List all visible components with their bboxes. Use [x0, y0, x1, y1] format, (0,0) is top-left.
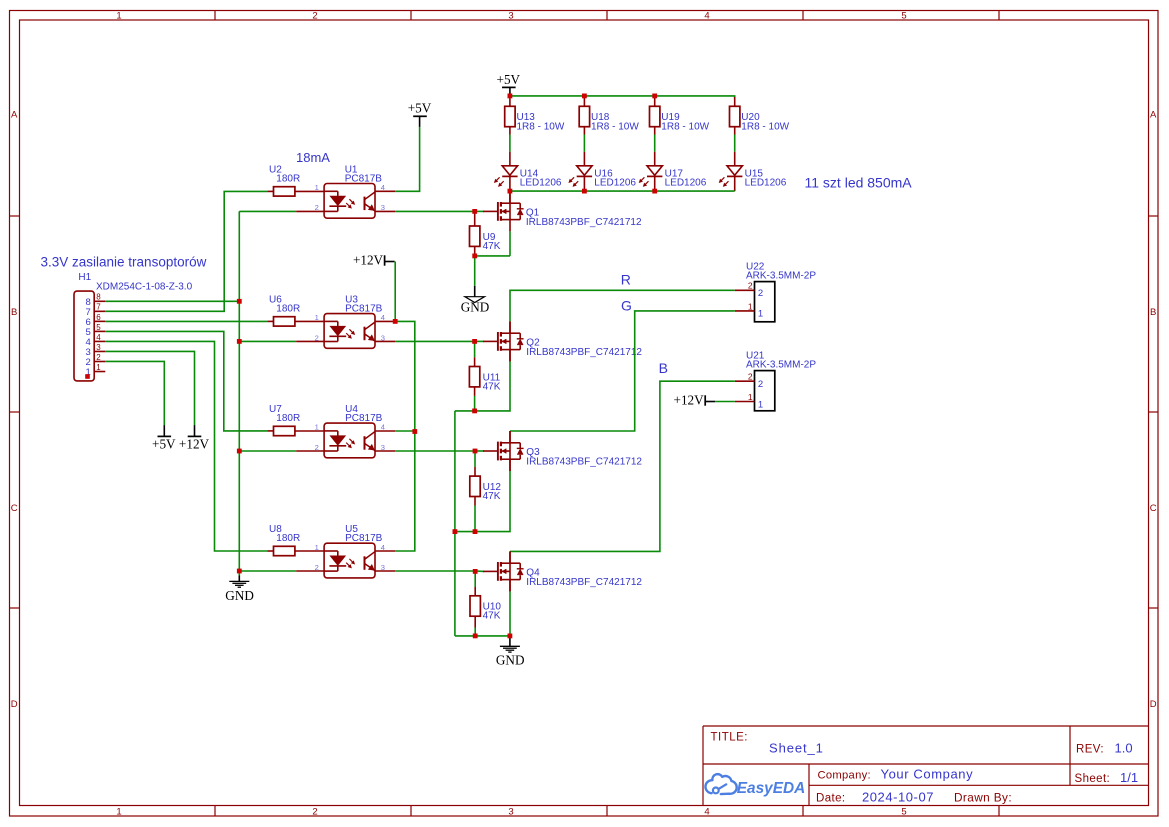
svg-text:2: 2 — [315, 443, 319, 452]
svg-text:D: D — [1150, 699, 1157, 710]
resistor U18 — [579, 97, 589, 135]
label Q1 — [526, 208, 540, 219]
label U10 value — [483, 611, 501, 622]
svg-text:2: 2 — [315, 563, 319, 572]
wire +12V to U21 pin1 — [715, 401, 735, 403]
net label R — [621, 271, 631, 287]
svg-text:11 szt led 850mA: 11 szt led 850mA — [805, 175, 913, 191]
label U3 — [345, 294, 358, 305]
svg-text:8: 8 — [96, 293, 101, 302]
svg-text:1R8 - 10W: 1R8 - 10W — [661, 121, 709, 132]
label U9 — [483, 232, 496, 243]
wire +12V down to U5 — [395, 432, 415, 552]
svg-text:1.0: 1.0 — [1115, 741, 1133, 756]
junction Q3 gate — [473, 449, 478, 454]
svg-text:7: 7 — [96, 303, 101, 312]
svg-text:2: 2 — [758, 288, 763, 299]
connector H1 — [74, 291, 105, 381]
resistor U11 — [469, 341, 479, 411]
wire U4 pin2 — [239, 450, 324, 452]
svg-text:180R: 180R — [276, 303, 300, 314]
power flag +5V at LED rail — [497, 72, 521, 96]
wire U1 pin4 to +5V — [375, 116, 420, 191]
wire U5 pin4 stub — [375, 550, 395, 552]
power flag +12V below H1 — [179, 425, 210, 452]
label U12 value — [483, 491, 501, 502]
svg-text:IRLB8743PBF_C7421712: IRLB8743PBF_C7421712 — [526, 577, 642, 588]
svg-text:B: B — [11, 307, 17, 318]
label Q3 — [526, 447, 540, 458]
label U18 value — [591, 121, 639, 132]
label U3 value — [345, 303, 383, 314]
wire +12V down to U4 — [395, 321, 415, 431]
junction U11 bottom — [472, 409, 477, 414]
date label — [816, 793, 846, 805]
svg-text:1: 1 — [315, 183, 319, 192]
label U20 value — [741, 121, 789, 132]
svg-text:5: 5 — [901, 807, 906, 818]
wire H1 pin2 to +5V flag — [105, 361, 164, 425]
svg-text:1: 1 — [748, 301, 753, 311]
wire +5V top rail — [510, 96, 735, 100]
sheet value 1/1 — [1120, 770, 1138, 785]
svg-text:PC817B: PC817B — [345, 303, 383, 314]
svg-text:5: 5 — [96, 323, 101, 332]
label U21 value — [746, 360, 816, 371]
svg-text:180R: 180R — [276, 533, 300, 544]
junction U5 pin2 — [237, 569, 242, 574]
wire H1 pin5 riser to U7 — [105, 331, 267, 431]
junction rail U16 — [582, 189, 587, 194]
svg-text:1: 1 — [116, 11, 121, 22]
svg-text:3.3V zasilanie transoptorów: 3.3V zasilanie transoptorów — [41, 254, 207, 269]
svg-text:2: 2 — [312, 11, 317, 22]
junction common riser mid — [453, 529, 458, 534]
junction U3 pin2 — [237, 339, 242, 344]
svg-text:5: 5 — [901, 11, 906, 22]
junction rail U17 — [652, 189, 657, 194]
svg-text:47K: 47K — [483, 611, 501, 622]
svg-text:B: B — [659, 360, 668, 376]
date value — [862, 790, 934, 805]
resistor U12 — [470, 451, 480, 532]
wire common cathode riser — [238, 211, 240, 571]
label U2 — [269, 164, 282, 175]
label U22 — [746, 261, 765, 272]
junction Q4 source gnd — [508, 634, 513, 639]
svg-text:PC817B: PC817B — [345, 533, 383, 544]
svg-text:REV:: REV: — [1076, 744, 1104, 756]
wire LED bottom rail — [510, 190, 735, 192]
label U15 — [745, 169, 764, 180]
wire Q2 source — [455, 350, 510, 411]
label Q4 value — [526, 577, 642, 588]
label U11 value — [483, 381, 501, 392]
svg-text:B: B — [1150, 307, 1156, 318]
wire H1 pin3 to +12V flag — [105, 351, 194, 425]
svg-text:+12V: +12V — [353, 253, 384, 268]
wire U3 pin4 stub — [375, 320, 395, 322]
wire U20 to U15 — [734, 135, 736, 152]
resistor U19 — [650, 97, 660, 135]
svg-text:EasyEDA: EasyEDA — [737, 780, 805, 797]
wire U13 to U14 — [509, 135, 511, 152]
label U20 — [741, 112, 760, 123]
label H1 — [78, 272, 91, 283]
label Q3 value — [526, 456, 642, 467]
resistor U9 — [470, 211, 480, 256]
svg-text:2: 2 — [315, 203, 319, 212]
wire U3 pin2 — [239, 340, 324, 342]
transistor Q4 — [483, 551, 524, 591]
svg-text:1: 1 — [116, 807, 121, 818]
resistor U7 — [267, 426, 324, 435]
svg-text:TITLE:: TITLE: — [711, 732, 749, 744]
svg-text:Drawn By:: Drawn By: — [954, 791, 1012, 805]
opto-coupler U5 — [315, 543, 385, 578]
svg-text:R: R — [621, 271, 631, 287]
svg-text:C: C — [1150, 503, 1157, 514]
svg-text:H1: H1 — [78, 272, 91, 283]
wire bottom gnd link — [455, 635, 510, 637]
led U17 — [639, 152, 662, 191]
label U1 value — [345, 173, 383, 184]
label U9 value — [483, 241, 501, 252]
wire common source riser — [454, 411, 456, 532]
svg-text:GND: GND — [461, 300, 490, 315]
drawn by label — [954, 791, 1012, 805]
junction U4 pin2 — [237, 449, 242, 454]
label U17 value — [665, 177, 707, 188]
label Q1 value — [526, 217, 642, 228]
EasyEDA logo — [705, 774, 805, 797]
wire Q3 source — [455, 459, 510, 531]
resistor U10 — [470, 571, 480, 636]
label U12 — [483, 482, 502, 493]
svg-text:Company:: Company: — [818, 770, 871, 782]
svg-text:LED1206: LED1206 — [745, 177, 787, 188]
label U4 — [345, 404, 358, 415]
label U1 — [345, 164, 358, 175]
wire Q3 drain — [509, 431, 511, 443]
note 18mA — [296, 150, 330, 165]
rev value 1.0 — [1115, 741, 1133, 756]
label U14 value — [520, 177, 562, 188]
svg-text:1/1: 1/1 — [1120, 770, 1138, 785]
label U7 value — [276, 413, 300, 424]
note 3.3V zasilanie transoptorow — [41, 254, 207, 269]
label U13 — [517, 112, 536, 123]
opto-coupler U3 — [315, 313, 385, 348]
net label B — [659, 360, 668, 376]
ground GND flag at Q4 — [496, 636, 525, 668]
wire U19 to U17 — [654, 135, 656, 152]
svg-text:4: 4 — [704, 11, 709, 22]
label U5 value — [345, 533, 383, 544]
label U19 — [661, 112, 680, 123]
svg-text:4: 4 — [96, 333, 101, 342]
led U15 — [719, 152, 742, 191]
rev label — [1076, 744, 1104, 756]
junction rail U19 — [652, 94, 657, 99]
svg-text:3: 3 — [508, 807, 513, 818]
junction Q1 gate — [472, 209, 477, 214]
svg-text:Sheet:: Sheet: — [1075, 773, 1111, 785]
svg-text:1: 1 — [96, 363, 101, 372]
wire U1 pin2 — [239, 210, 324, 212]
power flag +12V at U21 — [674, 393, 716, 408]
label U16 value — [594, 177, 636, 188]
svg-text:GND: GND — [496, 653, 525, 668]
resistor U2 — [267, 187, 324, 196]
note 11 szt led 850mA — [805, 175, 913, 191]
power flag +5V at U1 — [408, 101, 432, 117]
svg-text:+5V: +5V — [497, 72, 521, 87]
svg-text:1: 1 — [748, 392, 753, 402]
wire +12V to U3 pin4 — [394, 262, 396, 322]
svg-text:+5V: +5V — [152, 437, 176, 452]
label U14 — [520, 169, 539, 180]
junction U12 bottom — [473, 529, 478, 534]
led U14 — [494, 152, 517, 191]
resistor U8 — [267, 546, 324, 555]
svg-text:1: 1 — [315, 313, 319, 322]
wire U4 pin3 to Q3 gate — [375, 450, 484, 452]
wire Q1 source to U9 — [475, 231, 510, 256]
svg-text:3: 3 — [96, 343, 101, 352]
svg-text:+12V: +12V — [674, 393, 705, 408]
junction rail U14 — [508, 189, 513, 194]
svg-text:GND: GND — [225, 588, 254, 603]
svg-text:ARK-3.5MM-2P: ARK-3.5MM-2P — [746, 271, 816, 282]
label Q2 value — [526, 347, 642, 358]
label Q2 — [526, 338, 540, 349]
ground GND flag at H1 net — [225, 571, 254, 603]
wire Q1 drain — [509, 191, 511, 203]
wire H1 pin7 riser to U2 — [105, 191, 267, 311]
junction pin8/common — [237, 299, 242, 304]
svg-text:2: 2 — [758, 379, 763, 390]
resistor U20 — [730, 97, 740, 135]
svg-text:PC817B: PC817B — [345, 413, 383, 424]
wire U3 pin3 to Q2 gate — [375, 340, 484, 342]
junction U4 pin4 — [412, 429, 417, 434]
label U5 — [345, 524, 358, 535]
label U8 — [269, 524, 282, 535]
label U18 — [591, 112, 610, 123]
transistor Q2 — [483, 321, 524, 361]
power flag +12V at U3 — [353, 253, 395, 268]
svg-text:1R8 - 10W: 1R8 - 10W — [591, 121, 639, 132]
svg-text:LED1206: LED1206 — [520, 177, 562, 188]
junction U9 bottom — [472, 254, 477, 259]
svg-text:LED1206: LED1206 — [594, 177, 636, 188]
svg-text:2: 2 — [748, 281, 753, 291]
junction rail U18 — [582, 94, 587, 99]
label U10 — [483, 602, 502, 613]
wire B net — [510, 381, 735, 551]
svg-text:+5V: +5V — [408, 101, 432, 116]
svg-text:180R: 180R — [276, 413, 300, 424]
svg-text:G: G — [621, 297, 632, 313]
svg-text:+12V: +12V — [179, 437, 210, 452]
svg-text:2: 2 — [315, 333, 319, 342]
title value Sheet_1 — [769, 741, 824, 756]
label U8 value — [276, 533, 300, 544]
wire U1 pin3 to Q1 gate — [375, 210, 484, 212]
junction U3 pin4 — [393, 319, 398, 324]
junction Q2 gate — [472, 339, 477, 344]
connector U22 — [735, 281, 775, 322]
led U16 — [569, 152, 592, 191]
wire H1 pin4 riser to U8 — [105, 341, 267, 551]
wire G net — [510, 311, 735, 431]
wire U5 pin3 to Q4 gate — [375, 570, 484, 572]
title label — [711, 732, 749, 744]
label U15 value — [745, 177, 787, 188]
sheet label — [1075, 773, 1111, 785]
wire common source riser 2 — [454, 532, 456, 636]
label Q4 — [526, 568, 540, 579]
svg-text:47K: 47K — [483, 381, 501, 392]
svg-text:1: 1 — [315, 423, 319, 432]
wire Q2 drain to R — [510, 290, 735, 333]
svg-text:LED1206: LED1206 — [665, 177, 707, 188]
title block grid — [703, 726, 1149, 806]
opto-coupler U4 — [315, 423, 385, 458]
svg-text:IRLB8743PBF_C7421712: IRLB8743PBF_C7421712 — [526, 217, 642, 228]
wire to GND triangle — [474, 256, 476, 286]
wire U18 to U16 — [583, 135, 585, 152]
svg-text:4: 4 — [704, 807, 709, 818]
svg-text:2024-10-07: 2024-10-07 — [862, 790, 934, 805]
label U16 — [594, 169, 613, 180]
label U21 — [746, 350, 765, 361]
label U2 value — [276, 173, 300, 184]
svg-text:47K: 47K — [483, 491, 501, 502]
wire U5 pin2 — [239, 570, 324, 572]
resistor U13 — [505, 97, 515, 135]
wire H1 pin8 to common net — [105, 300, 239, 302]
label U22 value — [746, 271, 816, 282]
wire H1 pin6 to U6 — [105, 320, 267, 322]
transistor Q1 — [483, 191, 524, 231]
wire Q4 drain — [509, 551, 511, 563]
junction U10 bottom — [473, 634, 478, 639]
svg-text:1R8 - 10W: 1R8 - 10W — [741, 121, 789, 132]
svg-text:1R8 - 10W: 1R8 - 10W — [517, 121, 565, 132]
svg-text:18mA: 18mA — [296, 150, 330, 165]
svg-text:Sheet_1: Sheet_1 — [769, 741, 824, 756]
svg-text:2: 2 — [748, 372, 753, 382]
svg-text:6: 6 — [96, 313, 101, 322]
svg-text:1: 1 — [315, 543, 319, 552]
company label — [818, 770, 871, 782]
label U6 — [269, 294, 282, 305]
label U4 value — [345, 413, 383, 424]
label U7 — [269, 404, 282, 415]
svg-text:A: A — [1150, 110, 1157, 121]
svg-text:D: D — [11, 699, 18, 710]
label U11 — [483, 372, 501, 383]
svg-text:ARK-3.5MM-2P: ARK-3.5MM-2P — [746, 360, 816, 371]
label U17 — [665, 169, 684, 180]
label H1 value — [96, 282, 193, 293]
wire U4 pin4 stub — [375, 430, 415, 432]
company value — [881, 767, 974, 782]
power flag +5V below H1 — [152, 425, 176, 452]
opto-coupler U1 — [315, 183, 385, 218]
svg-text:C: C — [11, 503, 18, 514]
svg-text:47K: 47K — [483, 241, 501, 252]
svg-text:XDM254C-1-08-Z-3.0: XDM254C-1-08-Z-3.0 — [96, 282, 193, 293]
junction rail U13 — [508, 94, 513, 99]
svg-text:1: 1 — [758, 399, 763, 410]
svg-text:2: 2 — [312, 807, 317, 818]
net label G — [621, 297, 632, 313]
label U6 value — [276, 303, 300, 314]
svg-text:A: A — [11, 110, 18, 121]
svg-text:Your Company: Your Company — [881, 767, 974, 782]
junction Q4 gate — [473, 569, 478, 574]
svg-text:PC817B: PC817B — [345, 173, 383, 184]
ground GND triangle at Q1 — [461, 286, 490, 315]
svg-text:2: 2 — [96, 353, 101, 362]
label U13 value — [517, 121, 565, 132]
svg-text:180R: 180R — [276, 173, 300, 184]
label U19 value — [661, 121, 709, 132]
svg-text:1: 1 — [758, 309, 763, 320]
svg-text:Date:: Date: — [816, 793, 846, 805]
transistor Q3 — [483, 431, 524, 471]
svg-text:3: 3 — [508, 11, 513, 22]
resistor U6 — [267, 317, 324, 326]
svg-text:IRLB8743PBF_C7421712: IRLB8743PBF_C7421712 — [526, 456, 642, 467]
wire Q4 source — [509, 580, 511, 636]
svg-text:IRLB8743PBF_C7421712: IRLB8743PBF_C7421712 — [526, 347, 642, 358]
connector U21 — [735, 371, 775, 411]
